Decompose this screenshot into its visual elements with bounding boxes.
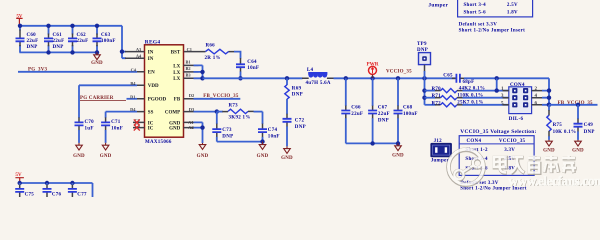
svg-text:A4: A4 bbox=[136, 54, 142, 59]
svg-text:Jumper: Jumper bbox=[431, 159, 450, 164]
capacitor C70 bbox=[75, 117, 95, 142]
wire 5V top rail bbox=[19, 25, 122, 27]
svg-text:C61: C61 bbox=[53, 33, 63, 38]
svg-text:B4: B4 bbox=[130, 81, 136, 86]
svg-text:GND: GND bbox=[543, 149, 555, 154]
node junction R69 tap bbox=[285, 76, 289, 80]
svg-text:C67: C67 bbox=[378, 106, 388, 111]
svg-text:TP9: TP9 bbox=[417, 42, 427, 47]
node junction LX B2 bbox=[200, 70, 204, 74]
svg-text:22uF: 22uF bbox=[378, 112, 390, 117]
svg-text:www.elecfans.com: www.elecfans.com bbox=[509, 173, 600, 188]
svg-text:R69: R69 bbox=[292, 86, 302, 91]
svg-text:C75: C75 bbox=[25, 193, 35, 197]
connector CON4 DIL-6 bbox=[509, 83, 532, 122]
svg-text:DNP: DNP bbox=[378, 119, 389, 124]
node junction bus pin4 bbox=[547, 96, 551, 100]
svg-text:3.3V: 3.3V bbox=[504, 148, 515, 153]
CON4 right pin stubs bbox=[532, 91, 543, 105]
node junction C68 / VCCIO_35 label bbox=[396, 76, 400, 80]
svg-text:C63: C63 bbox=[101, 33, 111, 38]
svg-text:LX: LX bbox=[173, 77, 180, 82]
wire LX merge bbox=[194, 65, 203, 78]
svg-text:44K2 0.1%: 44K2 0.1% bbox=[459, 87, 485, 92]
node junction C76 bbox=[45, 181, 49, 185]
ground (C70) bbox=[73, 143, 85, 159]
svg-text:VDD: VDD bbox=[148, 84, 159, 89]
svg-text:22uF: 22uF bbox=[77, 39, 89, 44]
node junctions on bottom rail bbox=[46, 50, 50, 54]
svg-text:IN: IN bbox=[148, 57, 154, 62]
node junction C66 bbox=[344, 76, 348, 80]
capacitor C71 bbox=[101, 117, 123, 142]
svg-text:PGOOD: PGOOD bbox=[148, 98, 167, 103]
capacitor C67 bbox=[368, 78, 390, 143]
capacitor C77 bbox=[68, 183, 87, 198]
node junctions on top rail bbox=[18, 24, 22, 28]
svg-text:100nF: 100nF bbox=[403, 112, 418, 117]
svg-text:FB: FB bbox=[174, 98, 181, 103]
svg-text:GND: GND bbox=[73, 154, 85, 159]
svg-text:Short 5-6: Short 5-6 bbox=[464, 10, 487, 15]
ground (compensation network) bbox=[257, 142, 269, 159]
svg-text:DNP: DNP bbox=[292, 93, 303, 98]
svg-text:DNP: DNP bbox=[53, 45, 64, 50]
node junction bus pin6 / FB wire bbox=[547, 103, 552, 108]
node junction pin1 row bbox=[495, 88, 499, 92]
jumper J12 bbox=[430, 139, 452, 164]
svg-text:R70: R70 bbox=[432, 87, 442, 92]
bottom-right voltage table box bbox=[459, 136, 534, 176]
svg-text:R71: R71 bbox=[432, 94, 442, 99]
resistor R69 DNP (vertical) bbox=[285, 78, 303, 114]
svg-text:L4: L4 bbox=[307, 68, 314, 73]
svg-text:GND: GND bbox=[197, 154, 209, 159]
svg-text:GND: GND bbox=[392, 153, 404, 158]
svg-text:CON4: CON4 bbox=[467, 139, 482, 144]
svg-text:MAX15066: MAX15066 bbox=[145, 140, 172, 145]
ground (C71) bbox=[100, 143, 112, 159]
svg-text:25K7 0.1%: 25K7 0.1% bbox=[457, 101, 483, 106]
capacitor C49 DNP bbox=[574, 105, 595, 140]
svg-text:1.8V: 1.8V bbox=[507, 10, 518, 15]
svg-text:Short 1-2/No Jumper Insert: Short 1-2/No Jumper Insert bbox=[459, 28, 526, 33]
svg-text:DNP: DNP bbox=[27, 45, 38, 50]
net label FB_VCCIO_35 (right) / FB wire bbox=[549, 101, 598, 106]
svg-text:22uF: 22uF bbox=[53, 39, 65, 44]
node junction bus R70 bbox=[422, 88, 426, 92]
svg-text:3K92 1%: 3K92 1% bbox=[229, 116, 251, 121]
svg-text:C60: C60 bbox=[27, 33, 37, 38]
svg-text:VCCIO_35 Voltage Selection:: VCCIO_35 Voltage Selection: bbox=[460, 129, 536, 135]
svg-text:C64: C64 bbox=[247, 60, 257, 65]
ground (input caps) bbox=[91, 52, 103, 66]
svg-text:C76: C76 bbox=[52, 193, 62, 197]
wire bottom 5V rail bbox=[20, 183, 93, 197]
svg-text:C62: C62 bbox=[77, 33, 87, 38]
capacitor C64 bbox=[236, 58, 259, 78]
node junction COMP / C73 / R73 bbox=[215, 109, 219, 113]
node junction C74 bottom / ground bbox=[260, 139, 264, 143]
svg-text:B1: B1 bbox=[186, 60, 191, 65]
op-amp-regulator U REG4 MAX15066 body bbox=[145, 40, 184, 145]
wire bottom rail of input caps bbox=[19, 51, 97, 53]
svg-text:10nF: 10nF bbox=[111, 126, 123, 131]
svg-text:Default set 3.3V: Default set 3.3V bbox=[459, 23, 498, 28]
svg-text:R73: R73 bbox=[229, 104, 239, 109]
node junction A2 GND join bbox=[200, 125, 204, 129]
node junction C68 bottom / ground bbox=[396, 141, 400, 145]
wire R66 to C64 corner bbox=[234, 52, 241, 59]
svg-text:LX: LX bbox=[173, 64, 180, 69]
svg-text:68pF: 68pF bbox=[463, 80, 475, 85]
wire LX rail to L4 bbox=[203, 77, 303, 79]
no-connect X marks on IC pins C2 C3 bbox=[134, 119, 140, 130]
watermark logo circle bbox=[449, 149, 484, 185]
capacitor C61 bbox=[44, 26, 64, 53]
svg-text:B2: B2 bbox=[186, 66, 191, 71]
capacitor C68 bbox=[394, 78, 418, 143]
ground (IC GND pins) bbox=[197, 143, 209, 159]
capacitor C62 bbox=[68, 26, 88, 53]
node junction TP9 / divider bus bbox=[422, 76, 426, 80]
wire CON4 pins 2/4/6 to right bus bbox=[542, 91, 549, 105]
IC left pin stubs (dark) bbox=[125, 52, 145, 128]
svg-text:D2: D2 bbox=[189, 93, 194, 98]
node junction C65 out / pin1 drop bbox=[495, 76, 499, 80]
svg-text:GND: GND bbox=[169, 127, 181, 132]
watermark CJK glyph blocks bbox=[494, 156, 577, 174]
power 5V (bottom cluster) bbox=[15, 172, 24, 183]
svg-text:Jumper: Jumper bbox=[428, 3, 448, 9]
svg-text:BST: BST bbox=[171, 51, 181, 56]
svg-text:GND: GND bbox=[91, 61, 103, 66]
wire rail corner down to IN pins bbox=[122, 26, 126, 58]
svg-text:GND: GND bbox=[281, 156, 293, 161]
capacitor C74 10nF bbox=[258, 112, 280, 142]
ground (output caps) bbox=[392, 143, 404, 158]
capacitor C73 DNP bbox=[212, 112, 233, 142]
svg-text:C71: C71 bbox=[111, 120, 121, 125]
node junction bus pin2 bbox=[547, 88, 551, 92]
wire IC GND pins A1 A2 bbox=[194, 122, 203, 143]
svg-text:GND: GND bbox=[100, 154, 112, 159]
resistor R73 3K92 1% bbox=[217, 104, 263, 121]
svg-text:C4: C4 bbox=[131, 67, 137, 72]
power port PWR bbox=[366, 61, 378, 78]
svg-text:IC: IC bbox=[148, 127, 154, 132]
CON4 left pin stubs bbox=[503, 91, 509, 105]
svg-text:22uF: 22uF bbox=[27, 39, 39, 44]
net PG_3V3 / wire to EN pin bbox=[18, 68, 137, 73]
resistor R72 25K7 0.1% bbox=[425, 101, 509, 107]
svg-text:4u7H 5.6A: 4u7H 5.6A bbox=[306, 81, 331, 86]
svg-text:C65: C65 bbox=[443, 74, 453, 79]
wire drop to CON4 pin 1 row bbox=[496, 78, 498, 90]
node junction LX B3 bbox=[200, 76, 204, 80]
watermark url text bbox=[509, 173, 600, 189]
svg-text:DIL-6: DIL-6 bbox=[509, 117, 524, 122]
node junction bus R71 bbox=[422, 96, 426, 100]
resistor R75 10K 0.1% (vertical) bbox=[547, 105, 576, 140]
capacitor C76 bbox=[43, 183, 62, 198]
node junction C67 bottom bbox=[370, 141, 374, 145]
ground (C72) bbox=[281, 146, 293, 161]
svg-text:C49: C49 bbox=[584, 123, 594, 128]
svg-text:VCCIO_35: VCCIO_35 bbox=[386, 70, 412, 75]
svg-text:R72: R72 bbox=[432, 101, 442, 106]
net PG_CARRIER / wire to PGOOD pin bbox=[80, 96, 137, 101]
wire C73-C74 bottom link bbox=[217, 141, 263, 143]
svg-text:EN: EN bbox=[148, 71, 155, 76]
wire divider left bus bbox=[424, 78, 426, 105]
svg-text:IN: IN bbox=[148, 51, 154, 56]
net label FB_VCCIO_35 (FB pin D2) bbox=[194, 94, 241, 99]
svg-text:REG4: REG4 bbox=[145, 40, 161, 46]
svg-text:10K 0.1%: 10K 0.1% bbox=[553, 130, 577, 135]
node junction 5V rail / IN pin A3 bbox=[120, 49, 124, 53]
test point TP9 DNP bbox=[417, 42, 431, 78]
wire SS net bbox=[106, 112, 137, 118]
svg-text:COMP: COMP bbox=[165, 111, 180, 116]
svg-text:C72: C72 bbox=[295, 118, 305, 123]
capacitor C72 DNP bbox=[283, 114, 306, 147]
resistor R71 110K 0.1% bbox=[425, 94, 509, 100]
svg-text:A2: A2 bbox=[188, 125, 193, 130]
svg-text:C74: C74 bbox=[268, 128, 278, 133]
wire COMP net bbox=[194, 111, 218, 113]
svg-text:1uF: 1uF bbox=[85, 126, 94, 131]
svg-text:22uF: 22uF bbox=[351, 112, 363, 117]
top-right jumper table box bbox=[458, 0, 533, 17]
svg-text:2R 1%: 2R 1% bbox=[205, 56, 221, 61]
capacitor C63 bbox=[93, 26, 116, 53]
svg-text:10nF: 10nF bbox=[268, 134, 280, 139]
svg-text:GND: GND bbox=[257, 154, 269, 159]
wire VCCIO rail after L4 bbox=[334, 77, 456, 79]
svg-text:B3: B3 bbox=[186, 73, 192, 78]
svg-text:DNP: DNP bbox=[295, 125, 306, 130]
svg-text:Short 3-4: Short 3-4 bbox=[464, 3, 487, 8]
IC right pin stubs (dark) bbox=[184, 65, 199, 127]
svg-text:110K 0.1%: 110K 0.1% bbox=[457, 94, 483, 99]
capacitor C60 bbox=[16, 26, 39, 53]
wire output caps bottom rail bbox=[346, 142, 398, 144]
svg-text:10nF: 10nF bbox=[247, 66, 259, 71]
svg-text:D1: D1 bbox=[130, 94, 135, 99]
wire VDD net bbox=[79, 85, 137, 118]
resistor R70 44K2 0.1% bbox=[425, 87, 509, 93]
capacitor C75 bbox=[15, 183, 34, 198]
svg-text:DNP: DNP bbox=[584, 130, 595, 135]
node junction C77 bbox=[70, 181, 74, 185]
resistor R66 2R 1% bbox=[184, 44, 235, 61]
svg-text:100nF: 100nF bbox=[101, 39, 116, 44]
svg-text:2.5V: 2.5V bbox=[507, 3, 518, 8]
node junction C67 / PWR bbox=[370, 76, 374, 80]
ground (C49) bbox=[572, 140, 584, 154]
svg-text:C73: C73 bbox=[222, 128, 232, 133]
svg-text:C70: C70 bbox=[85, 120, 95, 125]
svg-text:GND: GND bbox=[572, 149, 584, 154]
svg-text:C68: C68 bbox=[403, 106, 413, 111]
inductor L4 4u7H 5.6A bbox=[302, 68, 334, 86]
node junction C64 / LX rail bbox=[238, 76, 242, 80]
svg-text:D4: D4 bbox=[130, 107, 136, 112]
svg-text:C77: C77 bbox=[77, 193, 87, 197]
svg-text:LX: LX bbox=[173, 71, 180, 76]
svg-text:R75: R75 bbox=[553, 123, 563, 128]
svg-text:C66: C66 bbox=[351, 106, 361, 111]
svg-text:R66: R66 bbox=[206, 44, 216, 49]
capacitor C66 bbox=[341, 78, 363, 143]
power 5V (top input rail) bbox=[16, 14, 23, 25]
ground (R75) bbox=[543, 140, 555, 154]
svg-text:DNP: DNP bbox=[222, 134, 233, 139]
capacitor C65 68pF (horizontal feed-forward) bbox=[443, 74, 549, 86]
svg-text:VCCIO_35: VCCIO_35 bbox=[499, 139, 526, 144]
wire right bus corner bbox=[548, 78, 550, 105]
node junction C75 bbox=[18, 181, 22, 185]
svg-text:A3: A3 bbox=[136, 47, 142, 52]
node junction C49 tap bbox=[576, 103, 580, 107]
svg-text:SS: SS bbox=[148, 111, 154, 116]
